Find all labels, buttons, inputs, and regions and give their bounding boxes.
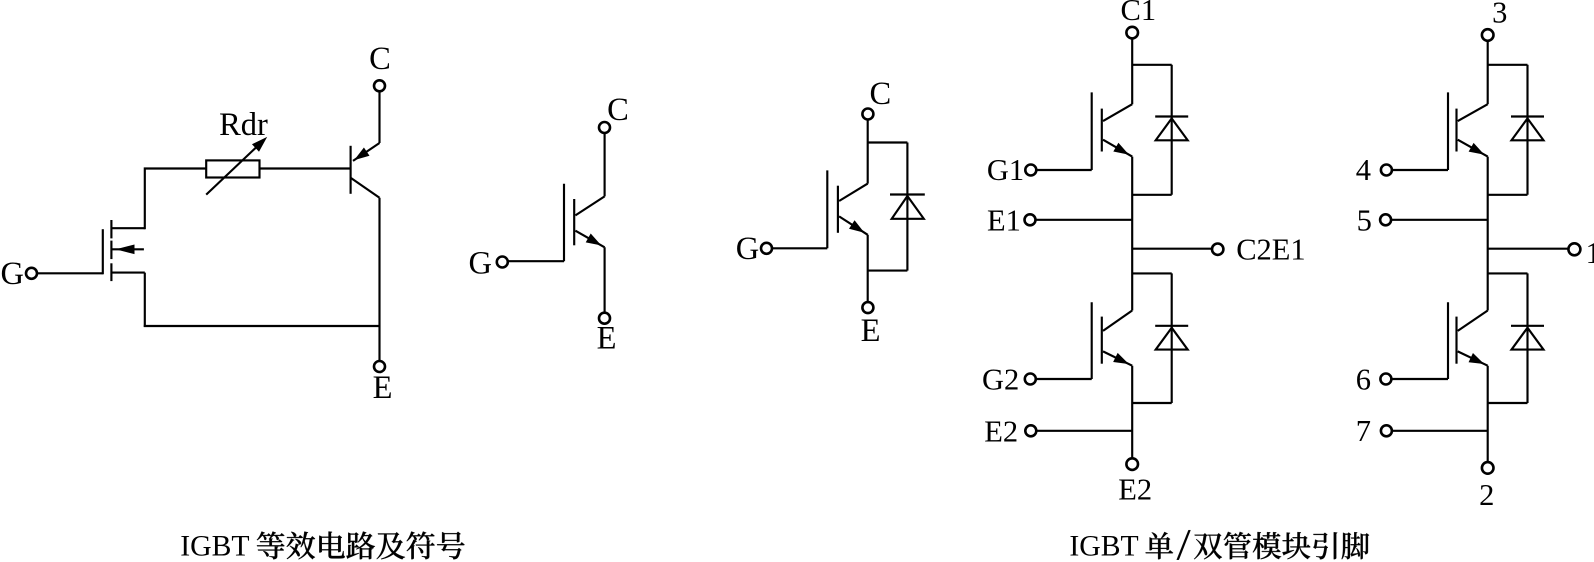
wire MOSFET drain up to resistor Rdr [145, 169, 206, 229]
svg-text:G2: G2 [982, 363, 1019, 397]
node pin 7 (lower emitter pin) [1381, 425, 1392, 436]
wire upper emitter pin to rail [1036, 219, 1133, 221]
wire lower diode loop top [1132, 272, 1172, 274]
wire C to IGBT collector [604, 133, 606, 196]
diode D2 cathode bar [1511, 325, 1544, 327]
wire lower gate pin to gate [1391, 378, 1448, 380]
wire G to gate [772, 247, 827, 249]
wire bottom rail [144, 325, 380, 327]
node C1 terminal (module 4) [1126, 27, 1138, 39]
svg-text:C1: C1 [1121, 0, 1157, 27]
diode D triangle [892, 196, 924, 219]
svg-text:IGBT: IGBT [1069, 530, 1138, 562]
wire upper diode loop bottom [1488, 194, 1528, 196]
svg-text:C: C [369, 41, 391, 77]
transistor PNP (IGBT equivalent circuit) [351, 143, 380, 198]
wire lower gate pin to gate [1036, 378, 1092, 380]
diode D1 triangle [1512, 118, 1544, 140]
svg-text:E2: E2 [1118, 473, 1152, 507]
wire upper emitter down the rail (through E1/C2E1 junctions) [1487, 157, 1489, 311]
node pin 4 (upper gate) [1381, 165, 1392, 176]
IGBT symbol [564, 184, 605, 262]
svg-text:IGBT: IGBT [180, 530, 249, 562]
wire top terminal down to upper IGBT collector [1131, 38, 1133, 104]
wire G terminal to MOSFET gate [37, 272, 103, 274]
svg-text:C: C [607, 92, 629, 128]
svg-text:Rdr: Rdr [219, 107, 268, 143]
IGBT upper (module) [1448, 92, 1488, 170]
diode D2 (antiparallel, lower) branch [1526, 273, 1528, 403]
wire PNP collector down to bottom rail and E [378, 198, 380, 361]
wire lower emitter pin to rail [1392, 430, 1488, 432]
wire midpoint junction to pin 1 [1488, 248, 1568, 250]
IGBT lower (module) [1092, 302, 1133, 379]
diode D cathode bar [890, 193, 925, 195]
node E (IGBT symbol emitter) [599, 313, 610, 324]
svg-text:G: G [736, 231, 759, 267]
MOSFET (IGBT equivalent circuit) [103, 220, 145, 281]
diode D1 (antiparallel, upper) branch [1171, 65, 1173, 195]
node pin 1 terminal [1568, 243, 1580, 255]
wire lower diode loop bottom [1488, 402, 1528, 404]
node pin 5 (upper emitter pin) [1380, 214, 1391, 225]
wire upper gate pin to gate [1036, 169, 1091, 171]
wire C terminal to PNP emitter [378, 91, 380, 143]
wire IGBT emitter down to bottom junction [867, 235, 869, 302]
svg-text:E1: E1 [987, 204, 1021, 238]
diode D2 cathode bar [1155, 325, 1188, 327]
diode D2 triangle [1512, 328, 1544, 350]
wire upper emitter pin to rail [1391, 219, 1488, 221]
svg-text:E: E [373, 370, 393, 406]
svg-text:6: 6 [1356, 363, 1371, 397]
wire upper gate pin to gate [1392, 169, 1448, 171]
node C2E1 terminal [1212, 244, 1223, 255]
svg-text:G: G [469, 246, 492, 282]
wire lower emitter down the rail [1487, 366, 1489, 462]
node E (emitter) [862, 302, 873, 313]
diode D2 triangle [1156, 328, 1188, 350]
wire lower emitter down the rail [1131, 366, 1133, 459]
node G2 (lower gate) [1025, 374, 1036, 385]
svg-text:E: E [861, 313, 881, 349]
svg-text:3: 3 [1492, 0, 1507, 30]
svg-text:1: 1 [1586, 236, 1594, 270]
wire bottom junction to diode anode [868, 270, 908, 272]
node E (emitter terminal) [374, 361, 385, 372]
wire IGBT emitter to E [604, 247, 606, 312]
svg-text:E2: E2 [984, 415, 1018, 449]
diode D1 cathode bar [1155, 115, 1188, 117]
wire upper diode loop top [1488, 64, 1528, 66]
wire MOSFET source down to bottom rail [144, 273, 146, 327]
IGBT lower (module) [1448, 302, 1488, 379]
arrow of variable resistor Rdr [206, 142, 262, 195]
node pin 2 bottom terminal [1482, 462, 1494, 474]
svg-text:G: G [0, 256, 23, 292]
diode D1 triangle [1156, 118, 1188, 140]
node pin 6 (lower gate) [1380, 374, 1391, 385]
wire top terminal down to upper IGBT collector [1487, 41, 1489, 104]
IGBT upper (module) [1092, 92, 1133, 170]
wire G to IGBT gate [508, 260, 564, 262]
svg-text:C2E1: C2E1 [1236, 233, 1305, 267]
IGBT (with antiparallel diode) [827, 170, 867, 248]
svg-text:7: 7 [1356, 414, 1371, 448]
diode D1 (antiparallel, upper) branch [1526, 65, 1528, 195]
resistor Rdr (variable) [206, 160, 259, 177]
diode D2 (antiparallel, lower) branch [1171, 273, 1173, 403]
wire upper diode loop top [1132, 64, 1172, 66]
wire junction to diode cathode branch [868, 141, 908, 143]
wire C2E1 junction to pin [1132, 248, 1212, 250]
svg-text:4: 4 [1356, 153, 1371, 187]
wire C down to collector junction [867, 120, 869, 184]
svg-text:C: C [869, 76, 891, 112]
wire upper diode loop bottom [1132, 194, 1172, 196]
wire upper emitter down the rail (through E1/C2E1 junctions) [1131, 157, 1133, 311]
node G1 (upper gate) [1025, 165, 1036, 176]
node E1 (upper emitter pin) [1025, 214, 1036, 225]
svg-text:2: 2 [1479, 478, 1494, 512]
arrow of PNP emitter (pointing into base bar) [356, 148, 369, 159]
wire lower diode loop bottom [1132, 402, 1172, 404]
diode D1 cathode bar [1511, 115, 1544, 117]
wire Rdr to PNP base [260, 167, 351, 169]
svg-text:G1: G1 [987, 153, 1024, 187]
svg-text:5: 5 [1357, 204, 1372, 238]
arrow of MOSFET body (pointing left) [118, 245, 135, 253]
node E2 (lower emitter pin) [1025, 425, 1036, 436]
wire lower diode loop top [1488, 272, 1528, 274]
wire lower emitter pin to rail [1036, 430, 1132, 432]
node E2 bottom terminal [1126, 458, 1138, 470]
node pin 3 terminal (module 5) [1482, 29, 1494, 41]
diode D (antiparallel) vertical branch [906, 143, 908, 271]
svg-text:E: E [597, 321, 617, 357]
